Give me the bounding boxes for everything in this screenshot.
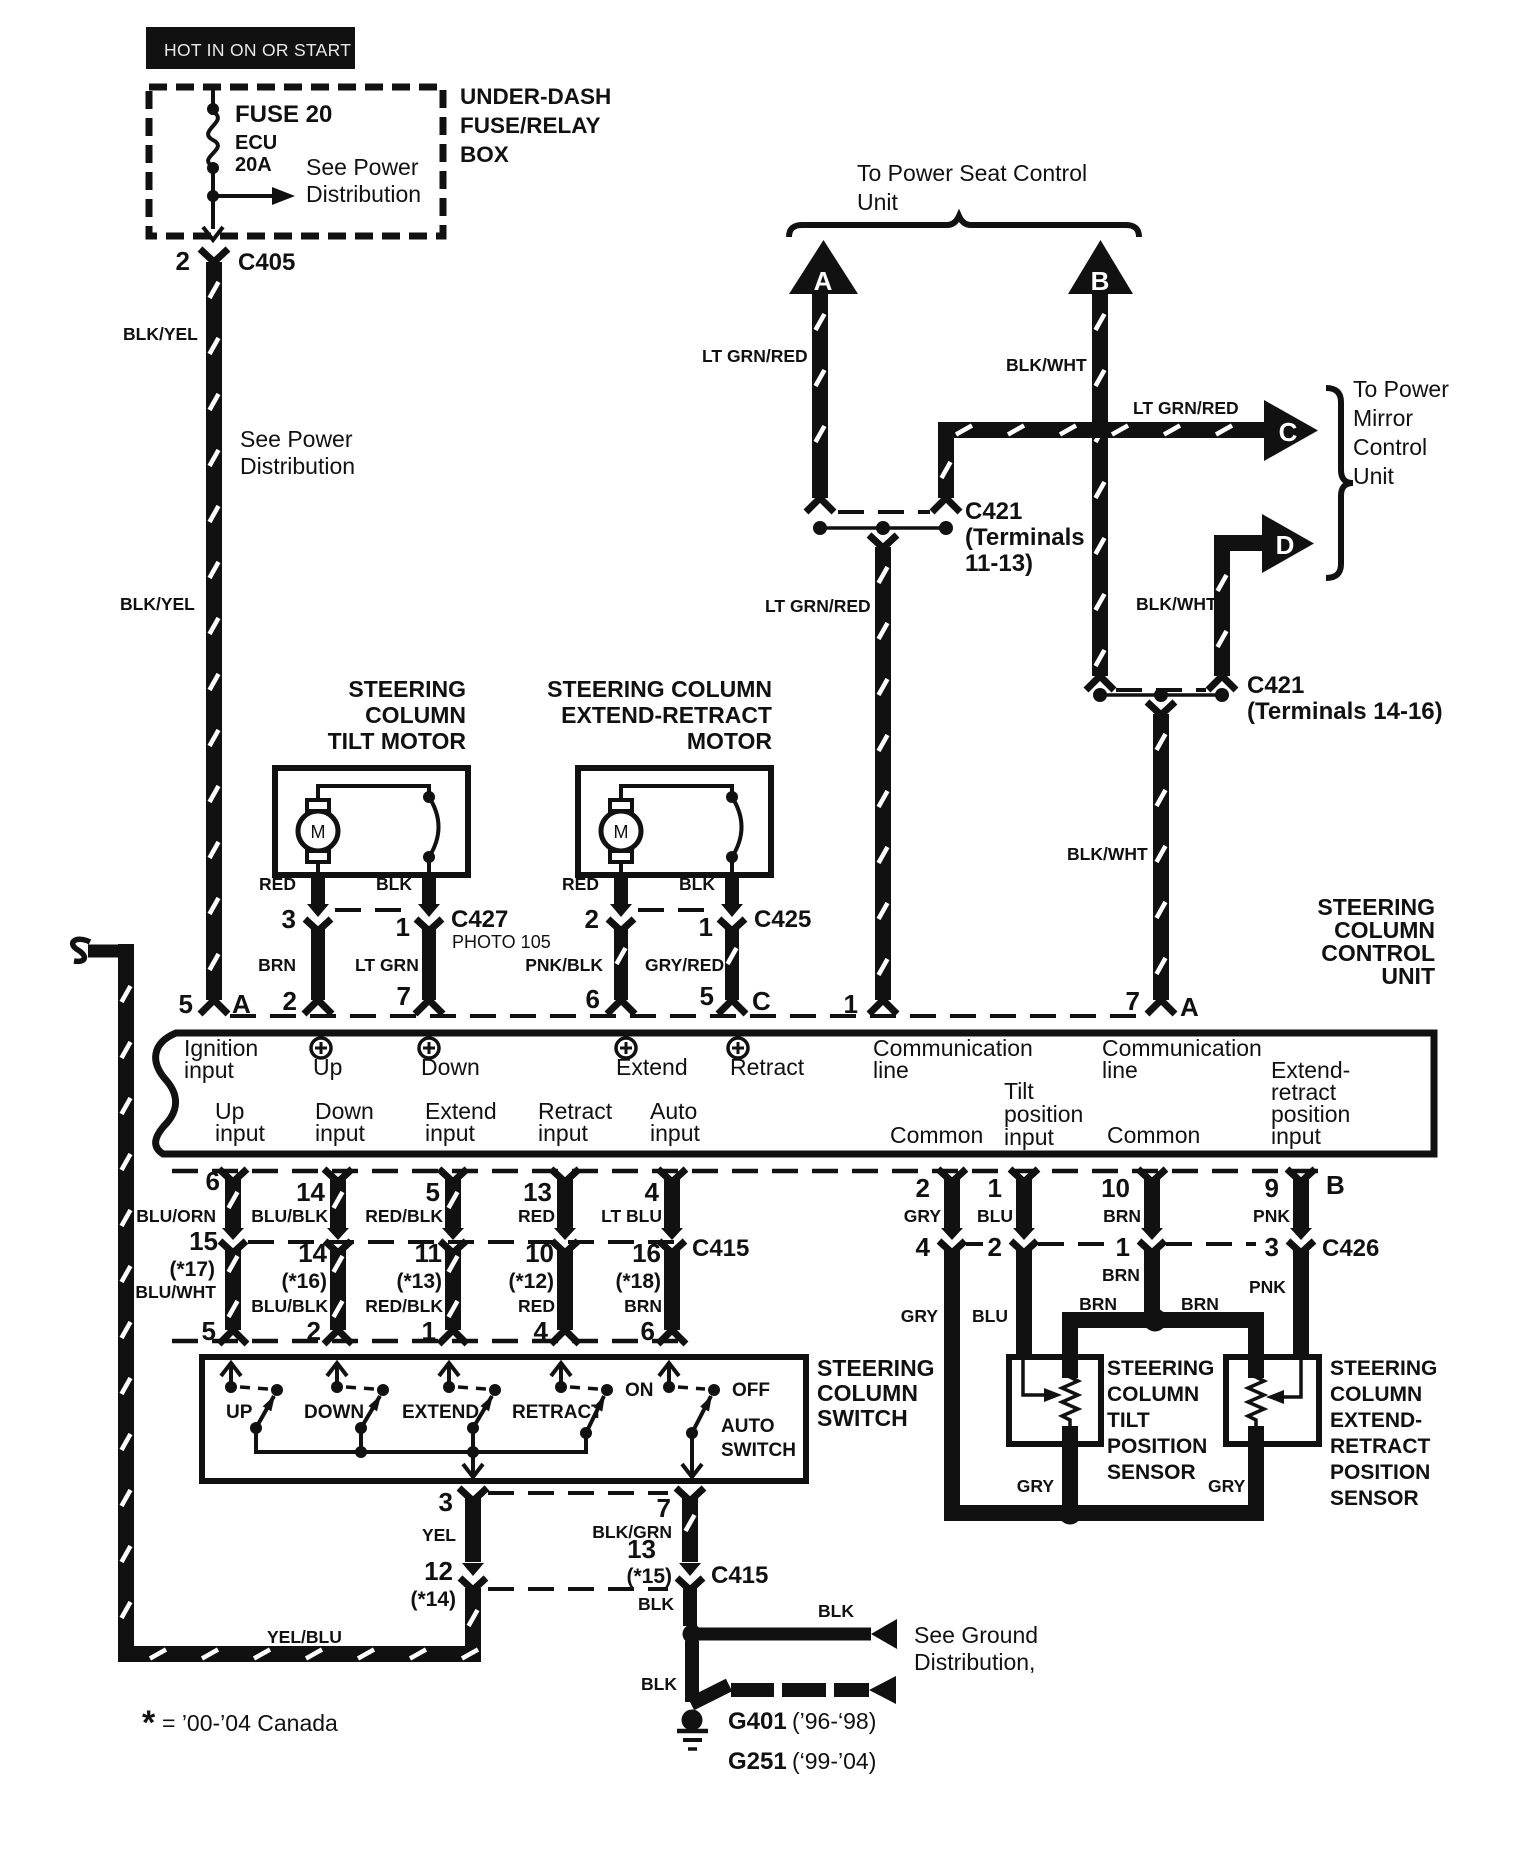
label Auto input [650, 1098, 700, 1146]
label PNK (upper) [1253, 1206, 1290, 1226]
svg-text:C421: C421 [965, 498, 1022, 525]
svg-text:SWITCH: SWITCH [721, 1440, 796, 1461]
svg-text:4: 4 [645, 1177, 660, 1207]
svg-text:(*18): (*18) [615, 1270, 661, 1293]
label C405 [238, 249, 295, 276]
label STEERING COLUMN EXTEND-RETRACT MOTOR [547, 676, 772, 754]
svg-text:14: 14 [296, 1177, 325, 1207]
wire GRY (C426 upper) [938, 1169, 966, 1228]
svg-text:13: 13 [523, 1177, 552, 1207]
svg-text:OFF: OFF [732, 1380, 770, 1401]
svg-text:RED/BLK: RED/BLK [365, 1206, 443, 1226]
svg-text:3: 3 [1265, 1232, 1279, 1262]
svg-text:See Power: See Power [240, 426, 353, 452]
label BLU/BLK [251, 1206, 328, 1226]
label BLK/WHT (arrow B) [1006, 355, 1087, 375]
svg-text:B: B [1326, 1170, 1345, 1200]
svg-text:Distribution: Distribution [306, 181, 421, 207]
wire LT GRN/RED horizontal to arrow C [938, 422, 1264, 438]
svg-text:BLK/YEL: BLK/YEL [123, 324, 198, 344]
wire end at communication pin 1 [869, 1000, 897, 1014]
label GRY/RED [645, 955, 724, 975]
label BRN (upper) [1103, 1206, 1141, 1226]
svg-text:(*16): (*16) [281, 1270, 327, 1293]
svg-text:G251: G251 [728, 1748, 787, 1775]
wire PNK/BLK (extend) [614, 926, 628, 1000]
svg-text:BLK: BLK [679, 874, 715, 894]
connector C427 (tilt) [305, 904, 442, 931]
label BRN [624, 1296, 662, 1316]
wire RED (retract input lower) [557, 1248, 573, 1330]
connector C415 (blk/grn) [677, 1563, 703, 1590]
svg-text:(’96-‘98): (’96-‘98) [792, 1708, 876, 1734]
label G401 (96-98) [728, 1708, 876, 1735]
wire BLK/YEL [206, 262, 222, 1000]
svg-text:TILT: TILT [1107, 1409, 1150, 1432]
svg-text:(*15): (*15) [626, 1565, 672, 1588]
pin 7 (down) [397, 981, 411, 1011]
svg-text:2: 2 [283, 986, 297, 1016]
label BRN (tilt) [258, 955, 296, 975]
svg-text:STEERING: STEERING [1330, 1357, 1437, 1380]
svg-text:BLU/BLK: BLU/BLK [251, 1296, 328, 1316]
svg-text:Common: Common [890, 1122, 983, 1148]
svg-text:G401: G401 [728, 1708, 787, 1735]
switch label AUTO SWITCH [721, 1416, 796, 1461]
label C415 (bottom) [711, 1562, 768, 1589]
note See Power Distribution (fuse box) [306, 154, 421, 207]
svg-text:15: 15 [189, 1226, 218, 1256]
tilt motor box [275, 768, 468, 875]
wire BLK/GRN [676, 1488, 704, 1562]
pin 5 (extend input) [426, 1177, 440, 1207]
pin 16 (auto input lower) [632, 1238, 661, 1268]
label C426 [1322, 1235, 1379, 1262]
pin 6 (extend) [586, 984, 600, 1014]
svg-text:A: A [814, 266, 833, 296]
wire BRN (auto input lower) [664, 1248, 680, 1330]
switch output arrow (motion) [463, 1452, 483, 1477]
wire GRY to sensor common [944, 1248, 960, 1518]
svg-text:COLUMN: COLUMN [1107, 1383, 1199, 1406]
svg-text:SWITCH: SWITCH [817, 1405, 908, 1431]
svg-text:Distribution,: Distribution, [914, 1649, 1035, 1675]
note See Power Distribution (mid) [240, 426, 355, 479]
wire GRY/RED (retract) [725, 926, 739, 1000]
label STEERING COLUMN TILT MOTOR [328, 676, 467, 754]
svg-text:D: D [1276, 530, 1295, 560]
svg-text:BLU/ORN: BLU/ORN [136, 1206, 216, 1226]
tilt motor brush arc [423, 791, 439, 863]
svg-text:BLU: BLU [977, 1206, 1013, 1226]
label RED (extend) [562, 874, 599, 894]
svg-text:1: 1 [396, 912, 410, 942]
label BLK (lower) [641, 1674, 677, 1694]
pin 5 (retract) [700, 981, 714, 1011]
pin 14 (down input lower) [298, 1238, 327, 1268]
svg-text:LT GRN/RED: LT GRN/RED [1133, 398, 1239, 418]
pin 4 (C426 bottom) [916, 1232, 931, 1262]
svg-text:AUTO: AUTO [721, 1416, 774, 1437]
pin note (*13) [396, 1270, 442, 1293]
svg-text:7: 7 [1126, 986, 1140, 1016]
tilt position sensor box [1009, 1357, 1101, 1444]
wire LT GRN/RED from arrow A [812, 294, 828, 498]
pin 9 (C426 top) [1265, 1173, 1279, 1203]
pin 4 (switch side) [534, 1316, 549, 1346]
svg-text:1: 1 [988, 1173, 1002, 1203]
svg-text:EXTEND-RETRACT: EXTEND-RETRACT [561, 702, 772, 728]
pin 1 of C427 [396, 912, 410, 942]
wire LT GRN/RED riser to arrow C [938, 430, 954, 498]
label BLK/GRN [592, 1522, 672, 1542]
off-page arrow C (to power mirror) [1264, 400, 1318, 461]
svg-text:UNDER-DASH: UNDER-DASH [460, 84, 611, 109]
terminal + Down [419, 1038, 480, 1080]
svg-text:B: B [1091, 266, 1110, 296]
switch output arrow (auto) [682, 1433, 702, 1477]
svg-text:LT BLU: LT BLU [601, 1206, 662, 1226]
svg-text:SENSOR: SENSOR [1107, 1461, 1196, 1484]
lower interface dashed line [172, 1169, 1318, 1174]
note To Power Mirror Control Unit [1353, 376, 1449, 489]
svg-text:SENSOR: SENSOR [1330, 1487, 1419, 1510]
steering column control unit box [156, 1033, 1434, 1154]
svg-text:2: 2 [916, 1173, 930, 1203]
label C421 (Terminals 11-13) [965, 498, 1085, 577]
connector C415 dashed line (lower) [488, 1587, 668, 1591]
label STEERING COLUMN CONTROL UNIT [1317, 894, 1435, 989]
pin 6 (up input) [206, 1166, 220, 1196]
connector prong below C421 14-16 [1147, 702, 1175, 715]
label LT GRN/RED (to arrow C) [1133, 398, 1239, 418]
fuse F20 ECU 20A symbol [208, 112, 218, 166]
svg-text:To Power Seat Control: To Power Seat Control [857, 160, 1087, 186]
arrow into connector C405 [203, 227, 223, 240]
label Common (right) [1107, 1122, 1200, 1148]
svg-text:COLUMN: COLUMN [817, 1380, 918, 1406]
tilt sensor potentiometer R1 [1062, 1364, 1078, 1438]
terminal + Extend [616, 1038, 688, 1080]
wire end at switch connector (extend input) [439, 1330, 467, 1344]
wire BLU to tilt sensor wiper [1016, 1248, 1032, 1357]
svg-text:LT GRN/RED: LT GRN/RED [765, 596, 871, 616]
pin 7 (switch blk/grn) [657, 1493, 671, 1523]
svg-text:A: A [1180, 992, 1199, 1022]
wire BRN branch to tilt sensor [1062, 1312, 1078, 1378]
wire RED/BLK (extend input upper) [439, 1169, 467, 1228]
label BLU/WHT [135, 1282, 216, 1302]
svg-text:PNK/BLK: PNK/BLK [525, 955, 603, 975]
svg-text:(*13): (*13) [396, 1270, 442, 1293]
switch interface dashed line [172, 1339, 690, 1344]
pin A (right C-connector letter) [1180, 992, 1199, 1022]
extend-retract motor box [578, 768, 771, 875]
svg-text:2: 2 [176, 246, 190, 276]
svg-text:EXTEND-: EXTEND- [1330, 1409, 1422, 1432]
svg-text:RETRACT: RETRACT [1330, 1435, 1430, 1458]
pin 6 (switch side) [641, 1316, 655, 1346]
label RED/BLK [365, 1296, 443, 1316]
connector C415 pin pair (retract input) [552, 1228, 578, 1253]
fuse value ECU 20A [235, 132, 277, 176]
svg-text:PNK: PNK [1249, 1277, 1286, 1297]
wire BRN branch to extend sensor [1248, 1312, 1264, 1378]
wire GRY common bus (bottom) [944, 1505, 1264, 1521]
wire BLK below C415 [683, 1588, 697, 1626]
wire BLK diagonal to G401 bus [691, 1685, 729, 1704]
pin 2 of C405 [176, 246, 190, 276]
svg-text:5: 5 [426, 1177, 440, 1207]
junction GRY common [1059, 1502, 1082, 1525]
svg-text:3: 3 [439, 1487, 453, 1517]
svg-text:Distribution: Distribution [240, 453, 355, 479]
label Up input [215, 1098, 265, 1146]
label Down input [315, 1098, 374, 1146]
pin A (C-connector letter) [232, 989, 251, 1019]
pin C (connector letter) [752, 986, 771, 1016]
svg-text:= ’00-’04 Canada: = ’00-’04 Canada [162, 1710, 338, 1736]
pin 3 (C426 bottom) [1265, 1232, 1279, 1262]
wire BLK (extend motor) [725, 873, 739, 904]
extend-retract motor brush arc [726, 791, 742, 863]
label GRY (long) [901, 1306, 939, 1326]
wire RED (retract input upper) [551, 1169, 579, 1228]
svg-text:input: input [1271, 1123, 1321, 1149]
svg-text:BRN: BRN [1181, 1294, 1219, 1314]
off-page arrow (alternate ground) [869, 1676, 896, 1704]
label Communication line (left) [873, 1035, 1033, 1083]
wire BLK dashed (alternate ground) [731, 1683, 869, 1697]
svg-text:LT GRN/RED: LT GRN/RED [702, 346, 808, 366]
label BLK/WHT (to arrow D) [1136, 594, 1217, 614]
svg-text:input: input [1004, 1124, 1054, 1150]
connector C421 terminals 14-16: wire ends [1086, 676, 1236, 690]
ground G401/G251 [677, 1710, 708, 1750]
label C427 [451, 906, 508, 933]
label Tilt position input [1004, 1078, 1083, 1150]
arrow to power distribution [213, 187, 295, 205]
connector C415 pin pair (auto input) [659, 1228, 685, 1253]
wire ends at extend/retract pins [607, 1000, 746, 1014]
label Extend input [425, 1098, 497, 1146]
svg-text:2: 2 [585, 904, 599, 934]
label BLK (upper) [638, 1594, 674, 1614]
tilt motor internal wiring [318, 786, 429, 872]
fuse label FUSE 20 [235, 101, 332, 128]
svg-text:FUSE/RELAY: FUSE/RELAY [460, 113, 600, 138]
wire BLU/ORN (up input upper) [219, 1169, 247, 1228]
pin 10 (C426 top) [1101, 1173, 1130, 1203]
svg-text:Common: Common [1107, 1122, 1200, 1148]
wire fuse to branch [211, 168, 215, 229]
pin 1 (communication line) [844, 989, 858, 1019]
svg-text:13: 13 [627, 1534, 656, 1564]
junction BLK ground split [683, 1625, 702, 1644]
svg-text:UNIT: UNIT [1381, 963, 1435, 989]
switch input arrow 5 [659, 1363, 679, 1393]
switch contact pair 4 [570, 1384, 613, 1439]
label RED (tilt) [259, 874, 296, 894]
label Extend-retract position input [1271, 1057, 1350, 1149]
connector C415 pin pair (down input) [325, 1228, 351, 1253]
switch contact pair 2 [346, 1384, 389, 1434]
wire YEL/BLU left riser [118, 944, 134, 1662]
connector C415 (yel) [460, 1563, 486, 1590]
label RED [518, 1296, 555, 1316]
pin 2 (up) [283, 986, 297, 1016]
wire BRN (tilt up) [311, 926, 325, 1000]
svg-text:C421: C421 [1247, 672, 1304, 699]
label STEERING COLUMN TILT POSITION SENSOR [1107, 1357, 1214, 1484]
switch input arrow 2 [327, 1363, 347, 1393]
label RED [518, 1206, 555, 1226]
brace for power mirror arrows [1326, 388, 1353, 578]
label STEERING COLUMN SWITCH [817, 1355, 935, 1431]
label GRY (upper) [904, 1206, 942, 1226]
svg-text:BLK/WHT: BLK/WHT [1067, 844, 1148, 864]
note asterisk = 00-04 Canada [142, 1704, 338, 1742]
label GRY (extend sensor) [1208, 1476, 1246, 1496]
label BLU (long) [972, 1306, 1008, 1326]
svg-text:LT GRN: LT GRN [355, 955, 419, 975]
label BLK/YEL (upper) [123, 324, 198, 344]
svg-text:C415: C415 [692, 1235, 749, 1262]
pin 4 (auto input) [645, 1177, 660, 1207]
label C415 [692, 1235, 749, 1262]
connector C421 terminals 14-16: terminal bar [1093, 688, 1229, 702]
svg-text:BLK/WHT: BLK/WHT [1006, 355, 1087, 375]
svg-text:RETRACT: RETRACT [512, 1402, 603, 1423]
pin note (*16) [281, 1270, 327, 1293]
svg-text:20A: 20A [235, 154, 272, 176]
wire end at communication pin 7 [1147, 1000, 1175, 1014]
svg-text:GRY: GRY [1017, 1476, 1055, 1496]
svg-text:GRY: GRY [904, 1206, 942, 1226]
label BLK (extend) [679, 874, 715, 894]
svg-text:BLU/BLK: BLU/BLK [251, 1206, 328, 1226]
svg-text:BLK/YEL: BLK/YEL [120, 594, 195, 614]
svg-text:3: 3 [282, 904, 296, 934]
wire ends at up/down pins [304, 1000, 443, 1014]
wire LT GRN (tilt down) [422, 926, 436, 1000]
wire LT GRN/RED to control unit [875, 547, 891, 1000]
switch label OFF [732, 1380, 770, 1401]
svg-text:6: 6 [206, 1166, 220, 1196]
svg-text:BLU: BLU [972, 1306, 1008, 1326]
svg-text:BRN: BRN [1102, 1265, 1140, 1285]
label Retract input [538, 1098, 613, 1146]
switch contact pair 5 [678, 1384, 720, 1439]
label YEL/BLU [267, 1627, 342, 1647]
wire BLU/WHT (up input lower) [225, 1248, 241, 1330]
connector C421 terminals 11-13: wire ends [806, 498, 960, 512]
svg-text:ON: ON [625, 1380, 654, 1401]
svg-text:11-13): 11-13) [965, 550, 1033, 577]
pin 13 (*15) [626, 1534, 672, 1588]
label STEERING COLUMN EXTEND-RETRACT POSITION SENSOR [1330, 1357, 1437, 1510]
pin 1 of C425 [699, 912, 713, 942]
label G251 (99-04) [728, 1748, 876, 1775]
svg-text:(Terminals: (Terminals [965, 524, 1085, 551]
label BLK (to ground distribution) [818, 1601, 854, 1621]
pin 3 (switch yel) [439, 1487, 453, 1517]
wire tilt sensor to common bus [1062, 1426, 1078, 1518]
svg-text:C415: C415 [711, 1562, 768, 1589]
box label UNDER-DASH FUSE/RELAY BOX [460, 84, 611, 167]
svg-text:(Terminals 14-16): (Terminals 14-16) [1247, 698, 1443, 725]
label LT BLU [601, 1206, 662, 1226]
switch contact pair 3 [458, 1384, 501, 1434]
svg-text:BRN: BRN [258, 955, 296, 975]
power label HOT IN ON OR START [146, 27, 355, 69]
wire BRN (C426 upper) [1138, 1169, 1166, 1228]
branch node [207, 190, 219, 202]
svg-text:6: 6 [586, 984, 600, 1014]
svg-text:10: 10 [1101, 1173, 1130, 1203]
svg-text:input: input [315, 1120, 365, 1146]
label RED/BLK [365, 1206, 443, 1226]
brace over arrows A and B [789, 216, 1139, 237]
label PNK/BLK [525, 955, 603, 975]
svg-text:RED: RED [518, 1296, 555, 1316]
wire YEL [459, 1488, 487, 1562]
label YEL [422, 1525, 456, 1545]
wire end at switch connector (retract input) [551, 1330, 579, 1344]
switch label EXTEND [402, 1402, 479, 1423]
svg-text:input: input [184, 1057, 234, 1083]
label BLU/BLK [251, 1296, 328, 1316]
svg-text:Down: Down [421, 1054, 480, 1080]
svg-text:(‘99-’04): (‘99-’04) [792, 1748, 876, 1774]
pin 1 (C426 bottom) [1116, 1232, 1130, 1262]
note To Power Seat Control Unit [857, 160, 1087, 215]
pin 2 of C425 [585, 904, 599, 934]
switch label ON [625, 1380, 654, 1401]
pin 2 (C426 top) [916, 1173, 930, 1203]
label LT GRN/RED (to control unit) [765, 596, 871, 616]
node below fuse [207, 162, 219, 174]
pin 12 (*14) [410, 1556, 456, 1611]
pin note (*17) [169, 1258, 215, 1281]
svg-text:C: C [752, 986, 771, 1016]
connector C405 (female) [200, 249, 228, 262]
svg-text:Up: Up [313, 1054, 342, 1080]
svg-text:STEERING: STEERING [817, 1355, 935, 1381]
svg-text:RED: RED [562, 874, 599, 894]
svg-text:PHOTO 105: PHOTO 105 [452, 932, 551, 952]
svg-text:GRY: GRY [901, 1306, 939, 1326]
svg-text:BRN: BRN [624, 1296, 662, 1316]
connector C426 pin pair (PNK) [1288, 1228, 1314, 1253]
pin 15 (up input lower) [189, 1226, 218, 1256]
wire BLK (tilt motor) [422, 873, 436, 904]
wire end at switch connector (up input) [219, 1330, 247, 1344]
wire PNK to extend sensor wiper [1293, 1248, 1309, 1357]
label BLU (upper) [977, 1206, 1013, 1226]
extend-retract motor M2 symbol [601, 800, 641, 862]
switch input arrow 3 [439, 1363, 459, 1393]
svg-text:input: input [425, 1120, 475, 1146]
wire YEL/BLU bottom run [118, 1646, 481, 1662]
label BRN (below C426) [1102, 1265, 1140, 1285]
wire PNK (C426 upper) [1287, 1169, 1315, 1228]
pin 10 (retract input lower) [525, 1238, 554, 1268]
svg-text:To Power: To Power [1353, 376, 1449, 402]
wire hook at top left [73, 939, 134, 961]
pin 13 (retract input) [523, 1177, 552, 1207]
tilt sensor wiper arrow [1023, 1360, 1062, 1402]
